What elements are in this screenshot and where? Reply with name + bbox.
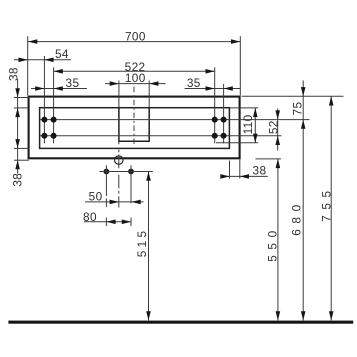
dim 100 extension left (118, 81, 120, 108)
svg-text:110: 110 (241, 114, 255, 134)
mounting hole dots left (41, 117, 56, 139)
dim 50 line (85, 201, 144, 203)
dim 100 line (105, 83, 166, 85)
cabinet centerline dash-dot (133, 87, 135, 145)
dim 35 left line (31, 88, 87, 90)
dashed line right fixing dot (130, 165, 132, 226)
wall fixing dots row line (99, 171, 152, 173)
dim 100 extension right (148, 81, 150, 108)
dim 38 top-left vertical line (17, 79, 19, 174)
dim 550 line (277, 159, 279, 321)
dim 38 bottom-right extension inner (229, 161, 231, 179)
dim 75 and 680 shared line (302, 81, 304, 321)
svg-text:50: 50 (89, 190, 103, 204)
svg-text:680: 680 (290, 199, 304, 235)
hole column line left outer (43, 56, 45, 143)
drain circle (115, 156, 124, 165)
dim 700 extension left (27, 36, 29, 95)
dim 110 line (254, 108, 256, 143)
dim 54 line (14, 59, 71, 61)
hole column line right inner (214, 67, 216, 143)
dim 35 right line (185, 88, 241, 90)
drain centerline dash-dot (118, 142, 120, 208)
dim 522 line (54, 70, 215, 72)
svg-text:54: 54 (55, 47, 69, 61)
svg-text:75: 75 (290, 102, 304, 116)
floor line (8, 321, 353, 324)
svg-text:35: 35 (66, 76, 80, 90)
dim 80 line (84, 221, 131, 223)
dim 38 bottom-right extension outer (239, 160, 241, 179)
inner top edge extension right (229, 107, 258, 109)
hole row line bottom (40, 135, 282, 137)
svg-text:100: 100 (125, 71, 146, 85)
hole row line top (40, 119, 310, 121)
svg-text:755: 755 (319, 185, 333, 221)
dim 38 bottom-right line (222, 175, 268, 177)
hole column line right outer (223, 84, 225, 143)
dim 38 top-left extensions (14, 97, 29, 99)
dim 38 bottom-left extensions (14, 147, 29, 149)
cabinet top extension right (242, 95, 344, 97)
cabinet bottom extension right (255, 158, 281, 160)
hole column line left inner (53, 67, 55, 143)
svg-text:38: 38 (6, 67, 20, 81)
dim 700 extension right (239, 36, 241, 95)
cabinet inner rect (40, 108, 230, 149)
dim 755 line (330, 96, 332, 320)
svg-text:700: 700 (125, 30, 146, 44)
dim 52 line (277, 109, 279, 151)
svg-text:80: 80 (83, 210, 97, 224)
mounting hole dots right (212, 117, 227, 139)
cabinet outer body rect (29, 97, 240, 159)
wall fixing dots below cabinet (104, 169, 110, 175)
svg-text:38: 38 (10, 173, 24, 187)
svg-text:52: 52 (266, 120, 280, 134)
dim 38 bottom-left arrows (15, 139, 20, 148)
siphon cutout rect (119, 108, 149, 142)
extension line 110 bottom (216, 142, 258, 144)
svg-text:35: 35 (187, 76, 201, 90)
svg-text:550: 550 (265, 225, 279, 261)
svg-text:515: 515 (135, 228, 149, 258)
svg-text:38: 38 (253, 164, 267, 178)
dim 700 line (28, 41, 240, 43)
dim 515 line (148, 172, 150, 321)
dashed line left fixing dot (105, 165, 107, 226)
